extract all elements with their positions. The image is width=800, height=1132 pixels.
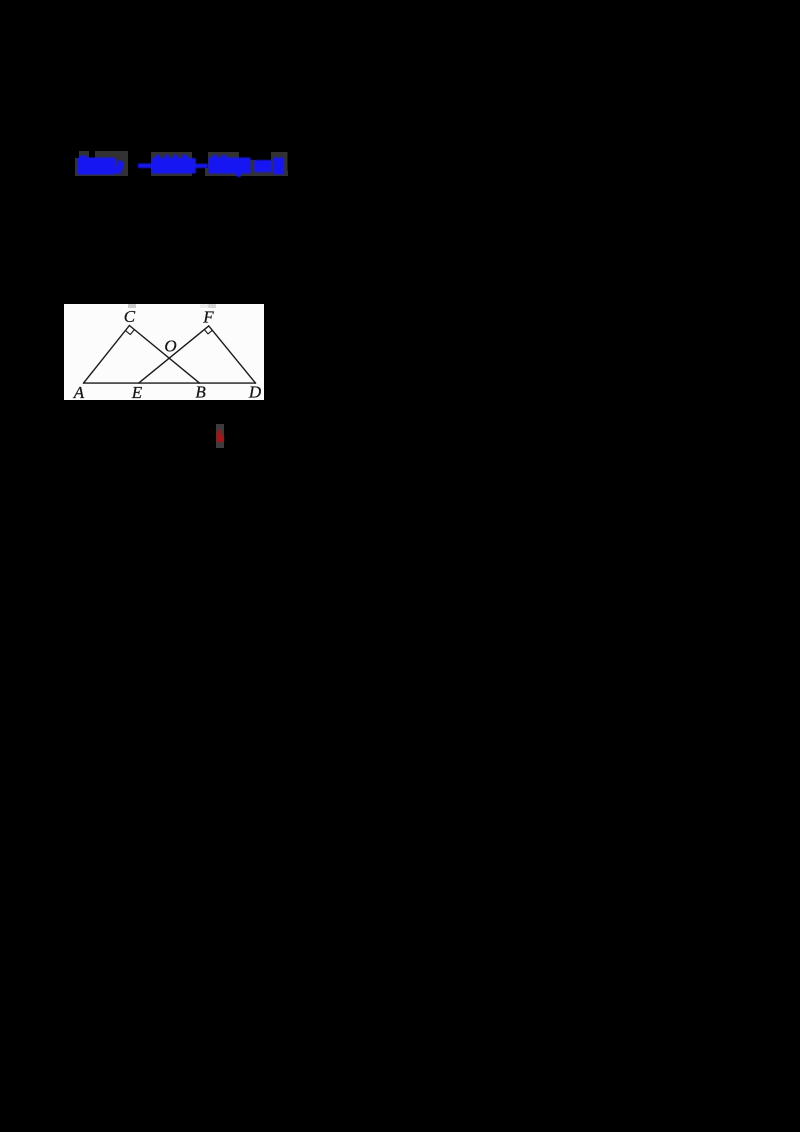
svg-text:D: D [248,382,262,400]
svg-text:F: F [202,307,214,326]
svg-text:C: C [124,307,136,326]
svg-text:E: E [131,382,143,399]
svg-text:A: A [73,383,85,400]
svg-text:O: O [164,336,176,355]
svg-text:B: B [195,382,206,400]
